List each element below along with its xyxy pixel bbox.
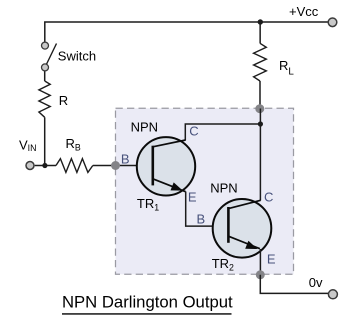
svg-text:R: R	[59, 93, 68, 108]
node box-edge gray dot top	[255, 104, 264, 113]
wire TR1 collector link	[185, 124, 260, 140]
svg-text:C: C	[189, 124, 198, 139]
terminal 0v	[328, 290, 337, 299]
node collector junction	[258, 121, 263, 126]
terminal +Vcc	[328, 18, 337, 27]
wire switch to R	[44, 71, 46, 81]
svg-text:RB: RB	[66, 136, 81, 153]
terminal Vin	[26, 162, 34, 170]
svg-text:+Vcc: +Vcc	[289, 4, 319, 19]
svg-text:NPN Darlington Output: NPN Darlington Output	[62, 293, 233, 312]
wire to 0v	[260, 275, 328, 294]
svg-text:NPN: NPN	[210, 181, 237, 196]
svg-text:E: E	[267, 252, 276, 267]
svg-text:VIN: VIN	[19, 138, 36, 153]
transistor TR2	[213, 199, 272, 258]
transistor TR1	[137, 137, 195, 195]
node box-edge gray dot bottom	[256, 270, 265, 279]
wire collector column	[259, 109, 261, 201]
svg-text:B: B	[197, 211, 206, 226]
wire TR2 emitter down	[259, 249, 261, 274]
wire Vin to RB	[35, 165, 56, 167]
svg-text:E: E	[188, 190, 197, 205]
svg-text:C: C	[264, 190, 273, 205]
darlington dashed box	[116, 108, 294, 274]
resistor R	[39, 81, 50, 117]
resistor RB	[56, 159, 93, 173]
svg-text:0v: 0v	[309, 275, 323, 290]
svg-text:Switch: Switch	[58, 48, 96, 63]
resistor RL	[259, 22, 261, 43]
node Vin junction	[42, 163, 47, 168]
svg-text:RL: RL	[279, 58, 294, 77]
wire RB to box	[93, 165, 154, 167]
node top junction	[258, 19, 263, 24]
svg-text:B: B	[121, 152, 130, 167]
switch S1	[42, 42, 49, 49]
wire TR1 emitter to TR2 base	[186, 192, 229, 227]
svg-text:NPN: NPN	[131, 119, 158, 134]
wire RL to box	[259, 81, 261, 109]
wire R to Vin row	[44, 117, 46, 165]
node box-edge gray dot	[111, 161, 120, 170]
wire top rail	[45, 22, 328, 42]
